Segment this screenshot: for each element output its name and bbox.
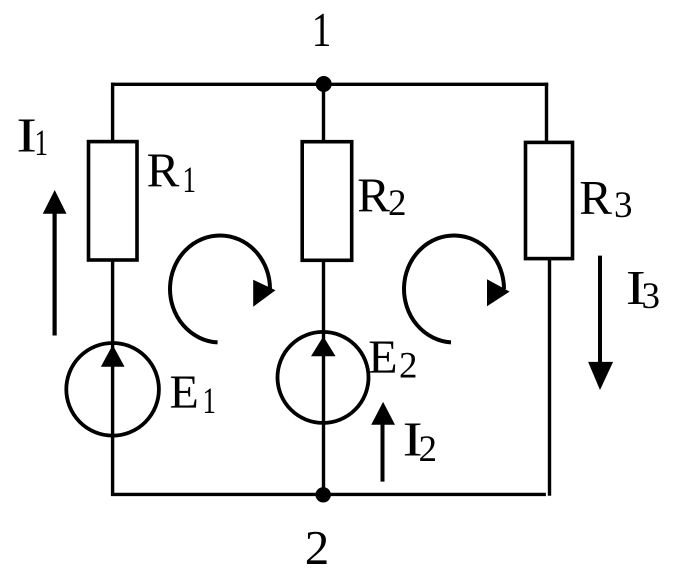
wire: middle branch vertical [322, 84, 325, 494]
resistor R3 [526, 142, 573, 258]
resistor R1 [89, 142, 138, 260]
svg-text:E: E [368, 331, 397, 384]
wire: bottom horizontal bus (node 2) [111, 493, 546, 496]
voltage source E1 (circle) [66, 343, 159, 436]
svg-text:1: 1 [203, 381, 217, 422]
svg-text:2: 2 [388, 183, 407, 224]
svg-text:R: R [579, 170, 612, 225]
current arrow I3 (down) [588, 256, 613, 390]
label E1 [170, 366, 217, 422]
svg-text:2: 2 [419, 429, 438, 470]
svg-text:3: 3 [614, 185, 633, 226]
label I3 [626, 260, 660, 317]
label R3 [579, 170, 632, 226]
wire: right branch vertical [547, 83, 550, 496]
svg-text:R: R [357, 168, 390, 223]
wire: left branch vertical [111, 83, 114, 496]
label E2 [368, 331, 417, 386]
resistor R2 [302, 142, 352, 261]
svg-text:E: E [170, 366, 199, 419]
svg-text:2: 2 [399, 345, 418, 386]
mesh loop arrow 2 (right, clockwise arc) [404, 235, 510, 342]
label I2 [403, 412, 437, 470]
mesh loop arrow 1 (left, clockwise arc) [170, 235, 275, 342]
svg-text:1: 1 [35, 123, 49, 164]
voltage source E1 arrowhead [101, 345, 125, 367]
label I1 [16, 107, 48, 164]
voltage source E2 arrowhead [311, 336, 336, 356]
label R2 [357, 168, 406, 224]
node 1 label [312, 2, 332, 57]
node 2 label [305, 520, 330, 575]
current arrow I1 (up) [43, 190, 67, 336]
voltage source E2 (circle) [278, 332, 369, 423]
svg-text:1: 1 [312, 2, 332, 57]
svg-text:1: 1 [183, 160, 197, 201]
node A: junction dot node 1 [316, 76, 332, 92]
svg-text:2: 2 [305, 520, 330, 575]
wire: top horizontal bus (node 1) [111, 83, 548, 86]
svg-text:R: R [147, 143, 180, 198]
current arrow I2 (up) [371, 402, 395, 482]
label R1 [147, 143, 196, 201]
svg-text:3: 3 [642, 276, 661, 317]
node B: junction dot node 2 [316, 487, 331, 502]
